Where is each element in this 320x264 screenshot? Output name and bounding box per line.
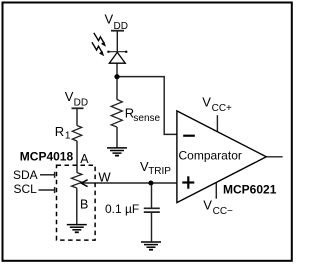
svg-text:MCP4018: MCP4018 xyxy=(20,149,74,163)
svg-text:V: V xyxy=(202,94,211,109)
svg-text:W: W xyxy=(98,170,111,185)
svg-text:A: A xyxy=(80,152,89,166)
svg-text:R: R xyxy=(55,124,64,139)
svg-text:SDA: SDA xyxy=(13,168,38,182)
svg-text:V: V xyxy=(65,89,74,104)
svg-text:CC+: CC+ xyxy=(212,103,232,114)
svg-text:CC−: CC− xyxy=(213,206,233,217)
svg-text:V: V xyxy=(203,197,212,212)
svg-text:1: 1 xyxy=(65,130,71,141)
svg-text:DD: DD xyxy=(74,98,88,109)
svg-text:SCL: SCL xyxy=(14,182,38,196)
svg-text:MCP6021: MCP6021 xyxy=(223,183,277,197)
svg-text:B: B xyxy=(80,198,88,212)
svg-text:TRIP: TRIP xyxy=(148,166,171,177)
svg-text:Comparator: Comparator xyxy=(179,149,242,163)
svg-text:0.1 µF: 0.1 µF xyxy=(105,202,139,216)
svg-text:V: V xyxy=(105,11,114,26)
svg-text:sense: sense xyxy=(133,113,160,124)
svg-text:DD: DD xyxy=(114,21,128,32)
